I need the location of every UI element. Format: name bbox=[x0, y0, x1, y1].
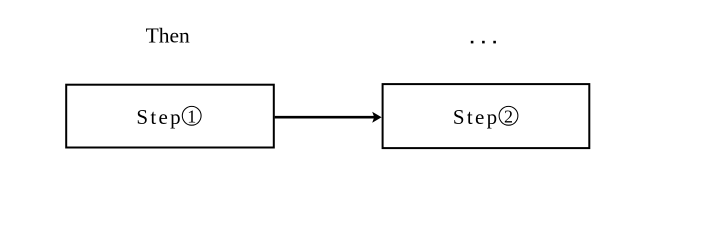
wire arrow shaft bbox=[275, 116, 375, 119]
box Step1 bbox=[66, 85, 274, 148]
label Step2 bbox=[453, 105, 518, 129]
label ellipsis bbox=[471, 41, 496, 44]
svg-text:Step: Step bbox=[453, 105, 500, 129]
svg-text:2: 2 bbox=[504, 106, 513, 126]
svg-text:1: 1 bbox=[187, 106, 196, 126]
box Step2 bbox=[383, 84, 590, 148]
svg-text:Step: Step bbox=[136, 105, 183, 129]
svg-text:Then: Then bbox=[146, 23, 190, 47]
label Step1 bbox=[136, 105, 201, 129]
arrowhead bbox=[372, 112, 381, 123]
